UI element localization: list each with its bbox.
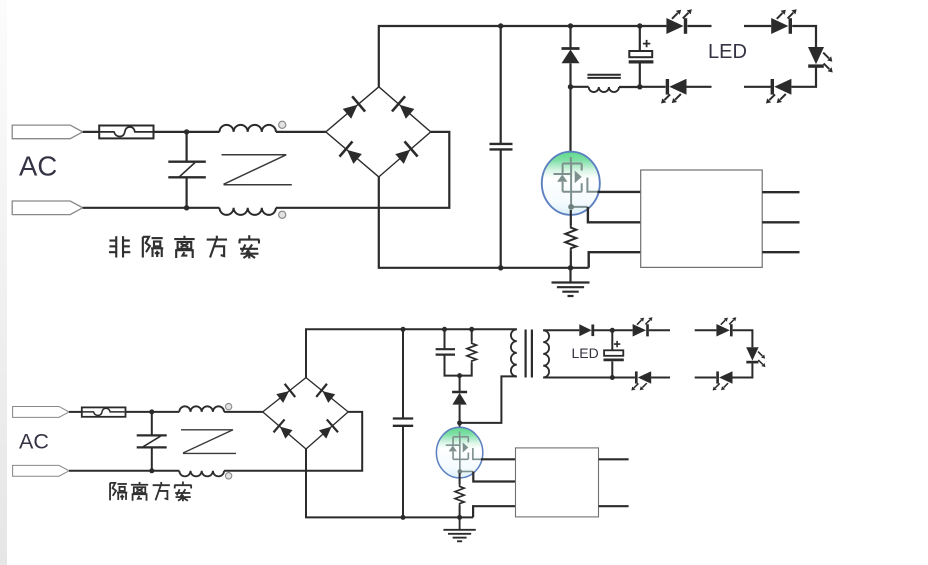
LED LD6 xyxy=(633,317,653,336)
wire L2 to output node xyxy=(619,86,640,88)
U1 right pin wire 2 xyxy=(762,221,799,223)
common-mode choke L1 bottom winding xyxy=(220,208,276,215)
node L junction xyxy=(401,515,406,520)
LED LD7 xyxy=(716,317,736,336)
wire choke to bridge left vertex xyxy=(276,131,326,133)
LED LD1 xyxy=(666,9,692,34)
output node 2 junction xyxy=(610,328,615,333)
page left edge strip xyxy=(0,0,7,565)
AC input terminal J4 (bottom, circuit 2) xyxy=(13,465,69,476)
capacitor CX2 (X-cap with slash) xyxy=(137,435,167,447)
svg-text:LED: LED xyxy=(708,41,747,63)
BR2 diode D8 (top-right) xyxy=(316,384,337,405)
common-mode choke L3 bottom winding xyxy=(179,471,224,477)
wire J4 to choke xyxy=(69,470,179,472)
BR1 diode D3 (bottom-left) xyxy=(339,141,364,166)
common-mode choke L1 core mark (Z) xyxy=(222,155,292,185)
electrolytic capacitor C2 plus mark xyxy=(643,40,650,47)
wire J3 to fuse F2 xyxy=(69,411,82,413)
fuse F2 xyxy=(82,407,126,416)
wire LD10 back to return node xyxy=(612,377,635,379)
transformer T1 primary winding xyxy=(511,329,517,376)
AC input terminal J1 (top, circuit 1) xyxy=(12,125,83,139)
L3 bottom phase dot terminal xyxy=(225,473,231,479)
wire LD5 back to output node xyxy=(640,86,666,88)
snubber resistor Rs xyxy=(467,341,476,362)
U1 right pin wire 3 xyxy=(762,251,799,253)
wire J2 to choke xyxy=(83,207,220,209)
AC input terminal J3 (top, circuit 2) xyxy=(13,406,69,417)
current sense resistor R2 xyxy=(455,485,464,506)
wire LD1 to string break xyxy=(687,25,711,27)
bulk capacitor C4 xyxy=(393,419,413,426)
label: non-isolated solution (非隔离方案) xyxy=(109,235,259,258)
wire CX1 to node B xyxy=(186,177,188,208)
ground node 2 junction xyxy=(457,515,462,520)
wire Q2 source sense to U2 pin 2 xyxy=(473,472,515,482)
transformer T1 secondary winding xyxy=(543,330,549,377)
wire switch node to inductor L2 xyxy=(571,86,589,88)
output diode D6 xyxy=(579,324,593,336)
BR2 diode D10 (bottom-right) xyxy=(317,419,338,440)
wire string resume to LD10 xyxy=(651,377,670,379)
wire drain node down to MOSFET Q2 xyxy=(459,423,461,432)
label: isolated solution (隔离方案) xyxy=(110,482,192,502)
wire string resume to LD2 xyxy=(744,25,771,27)
ground symbol GND2 xyxy=(443,517,475,541)
BR1 diode D4 (bottom-right) xyxy=(393,141,418,166)
node C junction on rail xyxy=(498,23,503,28)
U2 right pin wire 1 xyxy=(599,458,629,460)
L1 top phase dot terminal xyxy=(279,121,286,128)
ground symbol GND1 xyxy=(552,268,590,296)
wire string resume to LD7 xyxy=(695,329,717,331)
L3 top phase dot terminal xyxy=(225,403,231,409)
common-mode choke L3 top winding xyxy=(179,406,224,412)
node B junction xyxy=(184,205,189,210)
wire choke to bridge BR2 right side corner xyxy=(224,412,362,471)
BR1 diode D1 (top-left) xyxy=(340,96,365,121)
wire CX2 to node H xyxy=(151,447,153,470)
electrolytic capacitor C2 xyxy=(629,51,654,62)
wire J1 to fuse xyxy=(83,131,99,133)
wire F2 to node G xyxy=(126,411,180,413)
electrolytic capacitor C5 xyxy=(604,350,624,360)
wire LD4 to string break xyxy=(744,86,771,88)
clamp diode D11 xyxy=(452,376,467,423)
wire C2 to output node xyxy=(639,64,641,87)
ground rail wire xyxy=(379,177,589,268)
electrolytic capacitor C5 plus mark xyxy=(614,341,620,347)
wire ground rail up to U1 pin 3 xyxy=(589,252,641,268)
wire BR2 top vertex to DC rail xyxy=(306,329,517,377)
wire choke to bridge right side corner xyxy=(276,132,449,208)
clamp node junction xyxy=(457,373,462,378)
wire LD9 to string break xyxy=(695,377,717,379)
node F junction on ground rail xyxy=(498,265,503,270)
wire bottom rail up to U2 pin 3 xyxy=(473,506,515,517)
wire LD3 to bottom corner xyxy=(791,66,816,87)
secondary return node junction xyxy=(610,375,615,380)
MOSFET Q1 (highlighted) xyxy=(542,152,600,215)
wire choke to bridge BR2 left vertex xyxy=(224,411,263,413)
L1 bottom phase dot terminal xyxy=(279,211,286,218)
wire node G down to capacitor CX2 xyxy=(151,412,153,436)
wire drain node to transformer primary bottom xyxy=(460,376,517,423)
output node junction xyxy=(637,84,642,89)
wire secondary top to output diode D6 xyxy=(543,329,579,331)
wire rail down to electrolytic C2 xyxy=(639,26,641,51)
wire Q1 source sense to U1 pin 2 xyxy=(588,207,641,222)
wire C4 down to bottom rail xyxy=(402,426,404,518)
controller IC U1 xyxy=(641,170,763,267)
LED LD2 xyxy=(771,9,797,34)
wire rail down to bulk cap C4 xyxy=(402,329,404,418)
wire BR1 top vertex to DC+ rail xyxy=(379,26,667,87)
LED LD4 (left) xyxy=(766,79,792,104)
wire LD7 to corner and down xyxy=(733,330,753,347)
wire Cs down to clamp node xyxy=(445,355,459,376)
inductor L2 winding xyxy=(589,87,619,92)
node G junction xyxy=(149,409,154,414)
node I junction xyxy=(401,327,406,332)
U1 right pin wire 1 xyxy=(762,191,799,193)
transformer T1 core bars xyxy=(526,330,532,378)
LED LD8 (down) xyxy=(746,347,765,367)
wire R2 to bottom rail xyxy=(459,505,461,517)
wire Q1 source down to resistor R1 xyxy=(570,210,572,225)
wire switch node down to MOSFET Q1 drain xyxy=(569,87,571,158)
ground node junction xyxy=(568,265,573,270)
wire Q2 gate to controller U2 pin 1 xyxy=(481,458,516,460)
fuse F1 xyxy=(99,126,153,139)
wire node K down to snubber resistor Rs xyxy=(471,329,473,341)
wire Q2 source down to resistor R2 xyxy=(459,473,461,485)
MOSFET Q2 (highlighted) xyxy=(436,427,482,478)
svg-text:LED: LED xyxy=(572,345,599,361)
wire LD6 to string break xyxy=(649,329,670,331)
wire fuse to node A xyxy=(154,131,220,133)
LED LD5 (left) xyxy=(661,79,687,104)
current sense resistor R1 xyxy=(565,225,576,250)
wire D5 anode to switch node xyxy=(569,63,571,87)
LED LD10 (left) xyxy=(631,371,651,390)
node D junction on rail xyxy=(568,23,573,28)
wire LD8 to bottom corner xyxy=(732,364,752,378)
BR2 diode D9 (bottom-left) xyxy=(274,419,295,440)
wire Rs down to clamp node xyxy=(460,363,472,376)
drain node junction xyxy=(457,420,462,425)
AC input terminal J2 (bottom, circuit 1) xyxy=(12,201,83,215)
svg-text:AC: AC xyxy=(19,430,49,454)
wire output node 2 to LD6 xyxy=(612,329,632,331)
wire D6 to output node 2 xyxy=(594,329,612,331)
LED LD3 (down) xyxy=(808,47,833,73)
bottom rail wire circuit 2 xyxy=(306,449,473,517)
LED LD9 (left) xyxy=(713,371,733,390)
wire string resume to LD5 xyxy=(687,86,712,88)
wire rail down to freewheel diode D5 xyxy=(569,26,571,49)
wire C1 down to ground rail xyxy=(500,149,502,267)
svg-text:AC: AC xyxy=(19,151,57,182)
bridge rectifier BR1 diamond xyxy=(326,87,431,177)
snubber capacitor Cs xyxy=(436,349,455,354)
wire R1 to ground rail xyxy=(570,250,572,267)
wire rail down to bulk cap C1 xyxy=(500,26,502,144)
inductor L2 core bars xyxy=(587,75,620,78)
node A junction xyxy=(184,129,189,134)
node E junction on rail xyxy=(637,23,642,28)
U2 right pin wire 2 xyxy=(599,505,629,507)
freewheel diode D5 xyxy=(562,49,580,64)
node K junction xyxy=(469,327,474,332)
common-mode choke L3 core mark (Z) xyxy=(181,430,236,454)
capacitor CX1 (X-cap with slash) xyxy=(168,162,206,178)
controller IC U2 xyxy=(516,448,599,517)
common-mode choke L1 top winding xyxy=(220,125,276,132)
wire node A down to capacitor CX1 xyxy=(186,132,188,162)
wire LD2 to top right corner and down xyxy=(792,26,816,47)
wire down to electrolytic C5 xyxy=(611,330,613,350)
wire C5 down to secondary return xyxy=(611,361,613,377)
wire node J down to snubber cap Cs xyxy=(444,329,446,349)
BR2 diode D7 (top-left) xyxy=(274,384,295,405)
switch node junction xyxy=(568,84,573,89)
bridge rectifier BR2 diamond xyxy=(263,378,349,449)
bulk capacitor C1 xyxy=(490,144,513,150)
node J junction xyxy=(442,327,447,332)
BR1 diode D2 (top-right) xyxy=(392,96,417,121)
wire secondary bottom to return node xyxy=(543,377,612,379)
node H junction xyxy=(149,468,154,473)
wire Q1 gate to controller U1 pin 1 xyxy=(597,191,640,193)
